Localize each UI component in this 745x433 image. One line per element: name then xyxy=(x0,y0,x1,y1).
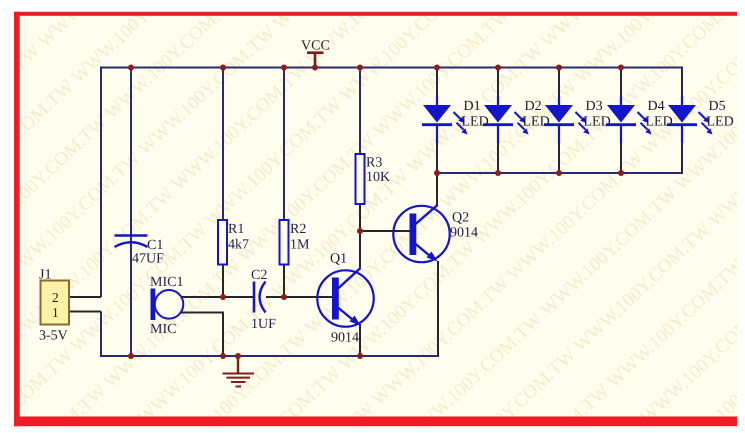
svg-text:J1: J1 xyxy=(39,268,51,283)
transistor Q1 xyxy=(317,268,373,327)
wire C1 through xyxy=(130,67,132,358)
R3 value label 10K xyxy=(366,170,390,185)
R1 designator label xyxy=(228,222,244,237)
wire Q2 collector up xyxy=(436,172,438,206)
resistor R1 xyxy=(218,220,227,265)
wire Q2 emitter down xyxy=(437,261,439,357)
junction top rail at R3 xyxy=(357,65,363,71)
junction LED rail at D3 xyxy=(556,170,562,176)
wire MIC1 output to node xyxy=(181,296,253,298)
J1 pin 1 number xyxy=(52,305,59,320)
microphone MIC1 xyxy=(151,289,184,321)
capacitor C2 xyxy=(254,282,266,313)
D3 value label LED xyxy=(584,115,611,130)
junction top rail at D4 xyxy=(618,65,624,71)
wire J1 pin2 to rail xyxy=(69,296,101,298)
svg-text:10K: 10K xyxy=(366,170,390,185)
ground xyxy=(223,356,255,387)
wire R2 top xyxy=(283,67,285,221)
svg-text:D3: D3 xyxy=(586,99,603,114)
MIC1 designator label xyxy=(150,275,183,290)
junction top rail at R2 xyxy=(281,65,287,71)
Q2 value label 9014 xyxy=(450,226,478,241)
svg-text:3-5V: 3-5V xyxy=(39,329,68,344)
svg-text:MIC1: MIC1 xyxy=(150,275,183,290)
connector J1 xyxy=(41,281,70,325)
LED D3 xyxy=(544,96,590,143)
wire R3 node to Q2 base xyxy=(360,230,410,232)
wire D1 anode drop xyxy=(436,67,438,107)
R2 designator label xyxy=(290,222,306,237)
svg-text:LED: LED xyxy=(707,115,734,130)
LED D4 xyxy=(606,96,652,143)
svg-text:VCC: VCC xyxy=(301,39,330,54)
svg-text:R1: R1 xyxy=(228,222,244,237)
wire J1 pin1 to rail xyxy=(69,311,101,313)
junction top rail at D2 xyxy=(495,65,501,71)
LED D2 xyxy=(483,96,529,143)
D1 designator label xyxy=(464,99,481,114)
junction top rail at VCC xyxy=(312,65,318,71)
wire R3 bottom pin xyxy=(359,204,361,231)
wire Q1 emitter down xyxy=(359,324,361,357)
junction node R2 C2 Q1 base xyxy=(281,294,287,300)
junction LED rail at D2 xyxy=(495,170,501,176)
C2 value label 1UF xyxy=(251,317,276,332)
C2 designator label xyxy=(251,268,267,283)
wire C2 to R2 node xyxy=(266,296,284,298)
svg-text:D1: D1 xyxy=(464,99,481,114)
junction LED rail at D4 xyxy=(618,170,624,176)
D3 designator label xyxy=(586,99,603,114)
Q2 designator label xyxy=(452,211,469,226)
wire R1 bottom pin xyxy=(222,264,224,298)
D2 designator label xyxy=(525,99,542,114)
J1 pin 2 number xyxy=(52,290,59,305)
wire D4 anode drop xyxy=(620,67,622,107)
R3 designator label xyxy=(366,156,382,171)
wire R1 top xyxy=(222,67,224,221)
svg-text:R3: R3 xyxy=(366,156,382,171)
D4 designator label xyxy=(648,99,665,114)
C1 value label 47UF xyxy=(132,252,164,267)
D2 value label LED xyxy=(523,115,550,130)
svg-text:1UF: 1UF xyxy=(251,317,276,332)
wire bottom ground rail xyxy=(100,355,438,357)
capacitor C1 xyxy=(115,236,148,248)
wire left rail lower xyxy=(100,312,102,358)
VCC power symbol xyxy=(307,53,324,67)
wire left rail upper xyxy=(100,67,102,298)
D5 value label LED xyxy=(707,115,734,130)
D1 value label LED xyxy=(462,115,489,130)
svg-text:Q2: Q2 xyxy=(452,211,469,226)
svg-text:9014: 9014 xyxy=(450,226,478,241)
svg-text:LED: LED xyxy=(584,115,611,130)
svg-text:1M: 1M xyxy=(290,238,310,253)
junction LED rail at D1 Q2 collector xyxy=(434,170,440,176)
svg-text:MIC: MIC xyxy=(150,322,176,337)
wire D2 cathode drop xyxy=(497,125,499,174)
junction top rail at D1 xyxy=(434,65,440,71)
junction ground rail at C1 xyxy=(128,353,134,359)
svg-text:4k7: 4k7 xyxy=(228,238,249,253)
wire node to Q1 base xyxy=(284,296,332,298)
resistor R2 xyxy=(280,220,289,265)
J1 designator label xyxy=(39,268,51,283)
junction ground rail at MIC xyxy=(220,353,226,359)
wire R3 top xyxy=(359,67,361,155)
svg-text:2: 2 xyxy=(52,290,59,305)
wire Q1 collector up xyxy=(359,230,361,268)
D5 designator label xyxy=(709,99,726,114)
wire top power rail xyxy=(100,67,682,69)
D4 value label LED xyxy=(646,115,673,130)
wire D5 anode drop xyxy=(681,67,683,107)
wire MIC1 bottom xyxy=(181,312,224,314)
LED D1 xyxy=(422,96,468,143)
svg-text:D4: D4 xyxy=(648,99,665,114)
svg-text:C2: C2 xyxy=(251,268,267,283)
junction top rail at D3 xyxy=(556,65,562,71)
wire R2 bottom pin xyxy=(283,264,285,298)
svg-text:LED: LED xyxy=(646,115,673,130)
VCC net label xyxy=(301,39,330,54)
wire D3 cathode drop xyxy=(558,125,560,174)
svg-text:D5: D5 xyxy=(709,99,726,114)
junction top rail at C1 xyxy=(128,65,134,71)
R1 value label 4k7 xyxy=(228,238,249,253)
wire LED cathode rail xyxy=(437,172,682,174)
svg-text:1: 1 xyxy=(52,305,59,320)
wire D3 anode drop xyxy=(558,67,560,107)
Q1 value label 9014 xyxy=(331,331,359,346)
wire D4 cathode drop xyxy=(620,125,622,174)
LED D5 xyxy=(667,96,713,143)
svg-text:47UF: 47UF xyxy=(132,252,164,267)
junction ground rail at GND stem xyxy=(235,353,241,359)
junction node R3 Q1 collector Q2 base xyxy=(357,228,363,234)
J1 value label 3-5V xyxy=(39,329,68,344)
junction ground rail at Q1 emitter xyxy=(357,353,363,359)
Q1 designator label xyxy=(330,252,347,267)
svg-text:LED: LED xyxy=(523,115,550,130)
wire D1 cathode drop xyxy=(436,125,438,174)
wire D5 cathode drop xyxy=(681,125,683,174)
junction top rail at R1 xyxy=(220,65,226,71)
svg-text:Q1: Q1 xyxy=(330,252,347,267)
transistor Q2 xyxy=(393,205,449,262)
resistor R3 xyxy=(356,154,365,204)
wire D2 anode drop xyxy=(497,67,499,107)
svg-text:D2: D2 xyxy=(525,99,542,114)
wire MIC1 bottom drop to ground rail xyxy=(222,312,224,358)
junction node R1 C2 MIC xyxy=(220,294,226,300)
svg-text:R2: R2 xyxy=(290,222,306,237)
svg-text:9014: 9014 xyxy=(331,331,359,346)
C1 designator label xyxy=(147,238,163,253)
MIC1 value label MIC xyxy=(150,322,176,337)
svg-text:LED: LED xyxy=(462,115,489,130)
R2 value label 1M xyxy=(290,238,310,253)
